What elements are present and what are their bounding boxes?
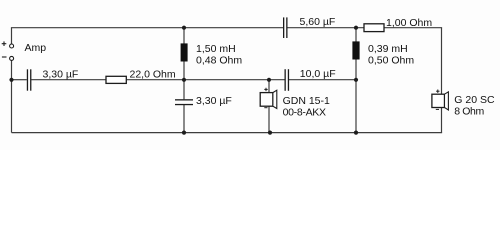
resistor R2 1,00 Ohm	[364, 24, 384, 32]
svg-text:00-8-AKX: 00-8-AKX	[283, 107, 326, 119]
capacitor C3 5,60 uF (series, top rail)	[283, 17, 288, 38]
wire branch x=356 (top rail through L2 to bottom rail)	[355, 28, 357, 133]
capacitor C1 3,30 uF (series, middle rail)	[27, 69, 32, 90]
wire shunt branch lower (C4 to bottom rail)	[183, 105, 185, 133]
svg-text:3,30 µF: 3,30 µF	[196, 95, 232, 107]
capacitor C2 10,0 uF (series, middle rail)	[285, 69, 290, 91]
speaker LS2 minus sign	[436, 108, 439, 110]
speaker LS1 minus sign	[264, 107, 267, 109]
svg-text:8 Ohm: 8 Ohm	[454, 106, 484, 118]
inductor L2 0,39 mH (solid bar)	[352, 41, 359, 59]
wire shunt branch upper (top rail to C4)	[183, 28, 185, 100]
speaker LS1 GDN 15-1 (woofer symbol)	[260, 90, 277, 108]
node bottom rail / woofer branch junction	[268, 131, 272, 135]
amp minus terminal circle	[10, 56, 14, 60]
wire middle rail segment (C1 through R1 to C2)	[31, 79, 284, 81]
speaker LS2 plus sign	[436, 90, 439, 93]
node top rail / L2 branch junction	[354, 26, 358, 30]
speaker LS2 G 20 SC (tweeter symbol)	[432, 92, 449, 110]
speaker LS1 plus sign	[264, 88, 267, 91]
wire middle rail segment (C2 to node D)	[289, 79, 356, 81]
wire middle rail segment (node to C1)	[12, 79, 27, 81]
wire woofer branch lower (speaker LS1 to bottom rail)	[268, 106, 270, 132]
wire left vertical below amp minus terminal	[11, 61, 13, 133]
svg-text:1,50 mH: 1,50 mH	[196, 43, 236, 55]
svg-text:0,48 Ohm: 0,48 Ohm	[196, 55, 242, 67]
node top rail / shunt branch junction	[182, 26, 186, 30]
amp plus sign	[2, 41, 7, 46]
node bottom rail / L2 branch junction	[354, 131, 358, 135]
svg-text:0,39 mH: 0,39 mH	[368, 43, 408, 55]
wire bottom return rail	[12, 132, 443, 134]
svg-text:G 20 SC: G 20 SC	[454, 94, 495, 106]
resistor R1 22,0 Ohm	[106, 76, 126, 83]
amp plus terminal circle	[10, 44, 14, 48]
svg-text:10,0 µF: 10,0 µF	[300, 68, 336, 80]
node middle rail / woofer branch junction	[267, 78, 271, 82]
wire right vertical lower (speaker LS2 to bottom rail)	[441, 108, 443, 133]
wire top rail (from amp + up and across to the right)	[12, 28, 284, 44]
node middle rail / L2 branch junction	[354, 78, 358, 82]
svg-text:5,60 µF: 5,60 µF	[300, 16, 336, 28]
node middle rail / shunt branch junction	[182, 78, 186, 82]
inductor L1 1,50 mH (solid bar)	[181, 43, 188, 61]
svg-text:1,00 Ohm: 1,00 Ohm	[386, 17, 432, 29]
svg-text:22,0 Ohm: 22,0 Ohm	[130, 69, 176, 81]
svg-text:Amp: Amp	[25, 42, 47, 54]
svg-text:3,30 µF: 3,30 µF	[43, 69, 79, 81]
wire woofer branch upper (middle rail to speaker LS1)	[268, 80, 270, 93]
node bottom rail / shunt branch junction	[182, 131, 186, 135]
svg-text:0,50 Ohm: 0,50 Ohm	[368, 55, 414, 67]
capacitor C4 3,30 uF (shunt branch)	[175, 99, 193, 105]
node amp minus / middle rail junction	[9, 78, 13, 82]
svg-text:GDN 15-1: GDN 15-1	[283, 95, 330, 107]
wire top rail right segment (C3 to right corner)	[287, 27, 442, 29]
wire right vertical upper (corner to speaker LS2)	[441, 28, 443, 95]
amp minus sign	[2, 56, 7, 58]
